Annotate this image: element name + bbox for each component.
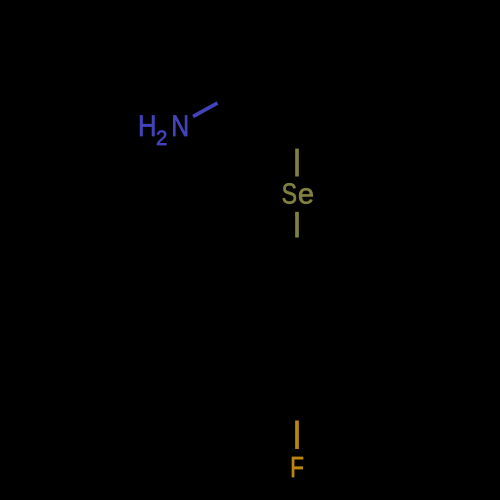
svg-text:S: S xyxy=(282,179,297,210)
svg-text:N: N xyxy=(171,109,189,142)
wire: bond C2-Se upper (olive half) xyxy=(295,149,299,177)
wire: bond N-C1 (blue half) xyxy=(193,103,218,117)
selenium label Se (node Se1) xyxy=(282,179,314,211)
svg-text:F: F xyxy=(290,450,304,483)
amine label H2N (node N1) xyxy=(138,109,189,150)
svg-text:2: 2 xyxy=(156,127,167,151)
wire: bond C4-F (amber half) xyxy=(295,421,299,450)
svg-text:H: H xyxy=(138,109,157,142)
wire: bond Se-C3 lower (olive half) xyxy=(295,212,299,238)
svg-text:e: e xyxy=(298,179,314,211)
